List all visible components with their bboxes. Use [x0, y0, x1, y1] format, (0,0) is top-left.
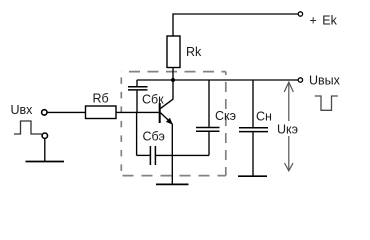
svg-text:Uвх: Uвх: [11, 103, 34, 117]
svg-text:+Ek: +Ek: [310, 14, 338, 28]
svg-text:Сбк: Сбк: [142, 92, 164, 106]
svg-text:Uвых: Uвых: [309, 74, 341, 88]
svg-text:Сбэ: Сбэ: [143, 130, 165, 144]
svg-text:Rk: Rk: [186, 45, 202, 59]
svg-text:Скэ: Скэ: [215, 109, 236, 123]
svg-text:Rб: Rб: [93, 92, 109, 106]
svg-text:Сн: Сн: [256, 110, 272, 124]
svg-text:Uкэ: Uкэ: [277, 123, 298, 137]
